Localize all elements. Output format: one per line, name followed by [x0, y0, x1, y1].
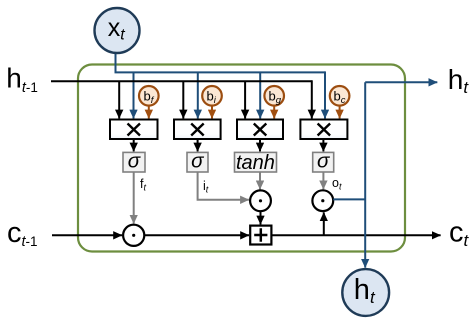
wire blue drop to gate 2: [197, 72, 199, 118]
wire blue drop to gate 1: [133, 72, 135, 118]
bias b_c: [330, 86, 350, 118]
bias b_i: [202, 86, 222, 118]
multiply gate box 4 (output): [300, 120, 347, 140]
wire x_t to gate bus (blue): [116, 53, 326, 72]
svg-text:σ: σ: [317, 150, 330, 173]
wire black drop to gate 2: [182, 81, 184, 118]
wire gate2 to sigma2: [197, 139, 199, 151]
output node h_t: [342, 269, 389, 316]
product node 1 (forget gate on cell state): [123, 225, 144, 246]
wire black drop to gate 4: [311, 80, 313, 118]
wire h_t-1 bus (black): [51, 80, 312, 82]
wire black drop to gate 1: [118, 81, 120, 118]
tanh box: [235, 152, 277, 174]
wire product3 to h_t (blue): [333, 198, 365, 200]
LSTM cell boundary: [78, 65, 405, 252]
wire black drop to gate 3: [244, 81, 246, 118]
wire g (gray) tanh to product node 2: [259, 172, 261, 189]
wire f_t (gray) sigma1 to product node 1: [133, 172, 135, 224]
wire h_t vertical (blue): [364, 82, 366, 267]
wire gate4 to sigma4: [322, 139, 324, 151]
sigma box 1: [123, 150, 145, 173]
wire blue drop to gate 3: [259, 72, 261, 118]
svg-text:σ: σ: [191, 150, 204, 173]
multiply gate box 3 (candidate): [237, 120, 283, 140]
input node x_t: [95, 8, 140, 53]
multiply gate box 2 (input): [174, 120, 221, 140]
svg-text:tanh: tanh: [236, 152, 275, 174]
multiply gate box 1 (forget): [110, 120, 158, 140]
product node 2 (input x candidate): [250, 190, 271, 211]
wire h_t out right (blue): [365, 81, 437, 83]
wire product1 to adder: [144, 234, 249, 236]
wire gate1 to sigma1: [133, 139, 135, 151]
wire blue drop to gate 4: [324, 71, 326, 118]
wire o_t (gray) sigma4 to product node 3: [322, 172, 324, 189]
sigma box 4: [313, 150, 334, 173]
bias b_f: [139, 86, 159, 118]
wire c_t-1 to product node 1: [52, 234, 122, 236]
product node 3 (output gate): [312, 190, 333, 211]
svg-text:σ: σ: [128, 150, 141, 173]
adder box: [250, 226, 271, 245]
sigma box 2: [187, 150, 208, 173]
wire i_t (gray) sigma2 to product node 2: [198, 172, 249, 200]
wire adder to c_t: [272, 234, 441, 236]
bias b_g: [264, 86, 284, 118]
wire product2 to adder: [260, 211, 262, 224]
wire branch up to product node 3: [323, 212, 325, 235]
wire gate3 to tanh: [259, 139, 261, 151]
